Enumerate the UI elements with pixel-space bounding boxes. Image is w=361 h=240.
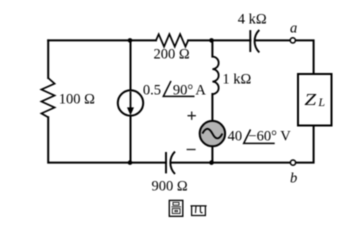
svg-text:1 kΩ: 1 kΩ [222,71,251,87]
svg-text:4 kΩ: 4 kΩ [238,12,267,28]
svg-text:A: A [195,83,206,99]
svg-text:b: b [290,171,297,187]
svg-text:−60° V: −60° V [248,129,291,145]
svg-text:a: a [290,21,297,37]
svg-text:Z: Z [304,90,316,109]
svg-text:L: L [317,95,325,109]
svg-text:0.5: 0.5 [143,83,161,99]
svg-text:100 Ω: 100 Ω [59,92,95,108]
svg-text:40: 40 [228,129,243,145]
svg-text:200 Ω: 200 Ω [154,46,190,62]
svg-text:900 Ω: 900 Ω [152,179,188,195]
